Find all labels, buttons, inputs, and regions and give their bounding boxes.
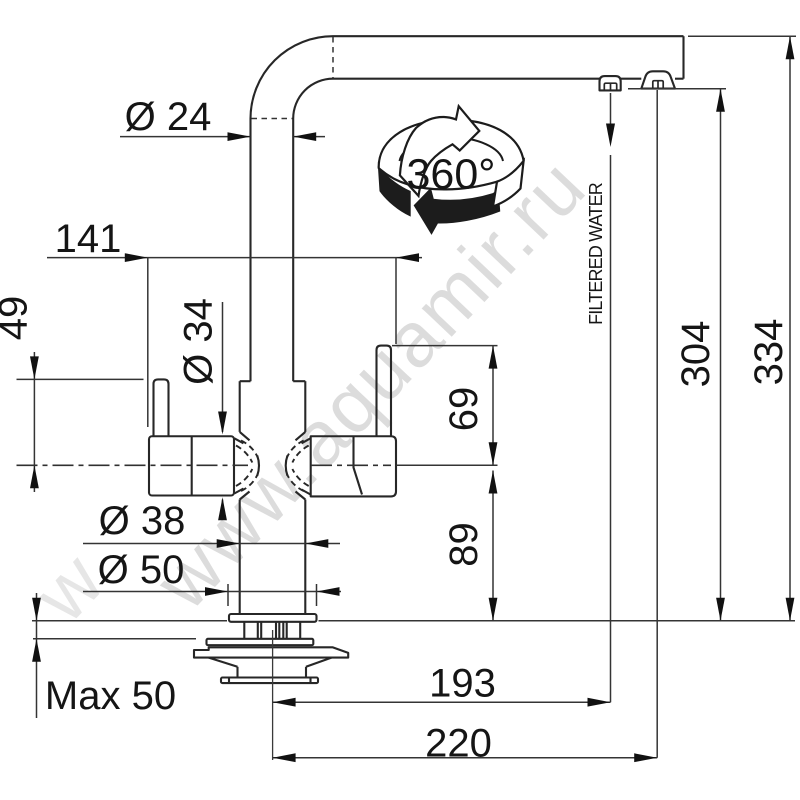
360 rotation symbol — [379, 106, 524, 233]
left valve body — [149, 436, 244, 495]
body shoulder step — [240, 380, 306, 382]
filtered outlet extension line — [610, 155, 612, 702]
dim 69 arrows — [489, 346, 498, 369]
body chamfers at waist — [240, 432, 306, 500]
threaded shank — [244, 622, 300, 639]
filtered outlet cap — [600, 76, 621, 90]
dim 89 arrows — [489, 471, 498, 494]
dim 220 line — [273, 757, 658, 759]
ring side band white right — [493, 161, 524, 207]
svg-text:Max 50: Max 50 — [45, 674, 176, 718]
aerator head — [641, 71, 675, 88]
dim 304 line — [720, 89, 722, 621]
dim 334 arrows — [786, 36, 795, 59]
ring side band black left — [379, 168, 410, 216]
dim Ø38 arrows — [217, 539, 240, 548]
left handle lever — [154, 379, 169, 436]
waist nose curves — [257, 456, 259, 476]
upper washer under deck — [207, 639, 314, 645]
countertop line left — [32, 620, 227, 622]
ring inner hole arc — [400, 138, 504, 161]
dim 334 line — [789, 36, 791, 621]
dim 193 arrows — [273, 698, 296, 707]
spout bottom line segments — [333, 78, 684, 80]
dim 141 extension right — [395, 258, 397, 344]
spout right end — [682, 36, 684, 78]
cone thread dashed lines left — [236, 441, 258, 492]
countertop underside line — [33, 638, 196, 640]
dim 193 line — [273, 701, 611, 703]
dim 304 arrows — [716, 89, 725, 112]
ring top face — [379, 120, 524, 190]
svg-text:Ø 50: Ø 50 — [98, 548, 185, 592]
dim Ø50 line — [83, 591, 341, 593]
dim 49 line — [33, 352, 35, 492]
valve axis center line left — [17, 464, 249, 466]
dim 49 arrows — [30, 356, 39, 379]
dim 220 arrows — [273, 753, 296, 762]
svg-text:220: 220 — [425, 722, 492, 766]
svg-text:FILTERED WATER: FILTERED WATER — [586, 182, 606, 325]
dim Ø38 line — [83, 543, 340, 545]
svg-text:Ø 38: Ø 38 — [99, 499, 186, 543]
dim 304 reference line — [628, 88, 726, 90]
body upper left side — [239, 381, 241, 432]
bend inner arc — [293, 79, 333, 119]
rotation sweep arrow white — [400, 106, 479, 196]
mounting cone gussets — [209, 658, 332, 678]
dim Ø24 arrows — [228, 132, 251, 141]
dim Ø34 line — [222, 302, 224, 432]
valve axis center line right — [311, 464, 391, 466]
rotation arrow black — [415, 189, 500, 234]
dim 69 line — [492, 346, 494, 466]
svg-text:89: 89 — [442, 522, 486, 567]
dim Ø50 extension ticks — [227, 584, 229, 606]
dim 89 line — [492, 471, 494, 621]
base flange — [229, 614, 317, 622]
lock nut washer — [221, 678, 318, 684]
dim Ø24 line — [120, 136, 251, 138]
dim 141 arrows — [125, 253, 148, 262]
dim 334 reference line — [688, 35, 796, 37]
cone thread dashed lines right — [287, 441, 309, 492]
dim 69 reference line top — [392, 345, 498, 347]
svg-text:193: 193 — [429, 662, 496, 706]
svg-text:Ø 34: Ø 34 — [177, 298, 221, 385]
svg-text:141: 141 — [55, 217, 122, 261]
svg-text:69: 69 — [442, 387, 486, 432]
svg-text:334: 334 — [747, 319, 791, 386]
right valve body — [302, 436, 397, 496]
countertop line right — [319, 620, 796, 622]
svg-text:Ø 24: Ø 24 — [125, 95, 212, 139]
svg-text:360°: 360° — [407, 151, 496, 199]
tangent mark vertical dashed — [332, 37, 334, 78]
bend outer arc — [251, 36, 334, 118]
dim 69 reference line bottom — [397, 464, 498, 466]
dim 49 reference line — [17, 378, 144, 380]
svg-text:49: 49 — [0, 296, 36, 341]
svg-text:304: 304 — [674, 321, 718, 388]
spout top line — [333, 35, 684, 37]
dim Max 50 line — [36, 593, 38, 718]
watermark fragment lower-left — [16, 536, 120, 639]
body lower left side — [239, 500, 241, 615]
filtered water flow arrow — [610, 93, 612, 128]
tangent mark horizontal dashed — [252, 118, 293, 120]
aerator extension line — [656, 90, 658, 758]
dim Max 50 arrows — [32, 598, 41, 621]
dim Ø50 arrows — [205, 587, 228, 596]
dim Ø34 arrows — [218, 412, 227, 435]
watermark www.aquamir.ru — [137, 141, 602, 626]
dim 141 line — [47, 257, 422, 259]
right handle lever — [377, 346, 392, 437]
faucet axis line — [272, 630, 274, 760]
dim 141 extension left — [147, 258, 149, 427]
riser pipe right edge — [292, 119, 294, 382]
mounting plate — [194, 647, 348, 657]
body lower right side — [304, 500, 306, 615]
riser pipe left edge — [249, 119, 251, 382]
body upper right side — [304, 381, 306, 432]
